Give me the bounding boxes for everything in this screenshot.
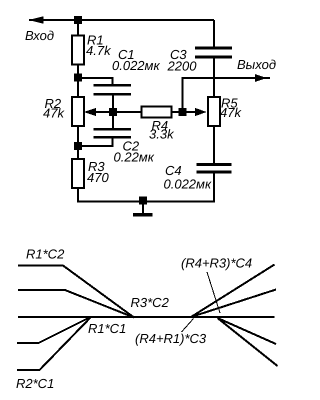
potentiometer R5 bbox=[208, 97, 220, 126]
node R1/R2/C1 junction bbox=[74, 74, 82, 82]
svg-text:2200: 2200 bbox=[167, 59, 198, 74]
svg-text:R1*C2: R1*C2 bbox=[26, 247, 65, 262]
graph line R2*C1 asymptote bbox=[17, 318, 91, 371]
potentiometer R2 bbox=[72, 97, 84, 126]
graph callout line to (R4+R1)*C3 bbox=[182, 319, 194, 333]
wire C2 top stub bbox=[112, 112, 114, 128]
output arrow bbox=[255, 74, 267, 82]
wire C1 top branch bbox=[78, 78, 113, 85]
node wiper/C1/C2 junction bbox=[109, 108, 117, 116]
wire C1 bottom stub bbox=[112, 96, 114, 113]
wire R2 wiper bbox=[96, 111, 113, 113]
graph line R3*C2 asymptote bbox=[18, 290, 134, 318]
wire R2 top stub bbox=[77, 82, 79, 98]
svg-text:0.22мк: 0.22мк bbox=[114, 150, 155, 165]
graph axis bbox=[18, 316, 275, 318]
graph line right down steep bbox=[218, 318, 278, 366]
svg-text:47k: 47k bbox=[220, 105, 242, 120]
svg-text:R3*C2: R3*C2 bbox=[131, 295, 170, 310]
wire C3 bottom to R5 top bbox=[213, 59, 215, 98]
capacitor C4 bbox=[197, 163, 232, 166]
input arrow bbox=[29, 16, 44, 24]
svg-text:3.3k: 3.3k bbox=[149, 127, 175, 142]
wire top right corner down to C3 bbox=[213, 20, 215, 47]
resistor R4 bbox=[142, 107, 172, 118]
graph line right down shallow bbox=[218, 318, 277, 344]
capacitor C2 bbox=[94, 128, 132, 131]
capacitor C1 bbox=[94, 84, 132, 87]
wire R1 top stub bbox=[77, 20, 79, 35]
R5 wiper arrow bbox=[195, 108, 207, 116]
node R4/R5 wiper junction bbox=[179, 108, 187, 116]
svg-text:0.022мк: 0.022мк bbox=[164, 177, 212, 192]
wire R5 wiper bbox=[183, 111, 198, 113]
svg-text:(R4+R1)*C3: (R4+R1)*C3 bbox=[135, 331, 207, 346]
graph callout line to (R4+R3)*C4 bbox=[207, 272, 220, 313]
svg-text:470: 470 bbox=[87, 170, 109, 185]
wire R3 bottom stub bbox=[77, 188, 79, 203]
svg-text:Вход: Вход bbox=[25, 28, 54, 43]
R2 wiper arrow bbox=[84, 108, 97, 116]
wire R3 top stub bbox=[77, 150, 79, 159]
wire top rail bbox=[29, 19, 214, 21]
graph line R1*C2 asymptote bbox=[18, 266, 134, 318]
svg-text:R1*C1: R1*C1 bbox=[88, 321, 126, 336]
wire C4 bottom to rail bbox=[213, 174, 215, 203]
svg-text:R2*C1: R2*C1 bbox=[16, 376, 54, 391]
svg-text:Выход: Выход bbox=[237, 57, 276, 72]
resistor R3 bbox=[72, 159, 84, 188]
wire R4 right lead bbox=[172, 111, 183, 113]
wire R2 bottom stub bbox=[77, 126, 79, 146]
svg-text:4.7k: 4.7k bbox=[86, 43, 112, 58]
wire bottom rail bbox=[78, 200, 215, 202]
graph line R1*C1 asymptote bbox=[17, 318, 90, 344]
ground bbox=[142, 201, 144, 214]
wire R5 bottom to C4 bbox=[213, 126, 215, 164]
wire R1 bottom stub bbox=[77, 65, 79, 79]
capacitor C3 bbox=[195, 47, 232, 50]
resistor R1 bbox=[72, 36, 84, 65]
node input/R1 junction bbox=[74, 16, 82, 24]
node R2/R3/C2 junction bbox=[74, 142, 82, 150]
graph line right up shallow bbox=[191, 290, 276, 318]
svg-text:47k: 47k bbox=[43, 106, 65, 121]
svg-text:0.022мк: 0.022мк bbox=[112, 58, 160, 73]
wire C2 bottom branch bbox=[78, 139, 113, 146]
wire R4 left lead bbox=[113, 111, 141, 113]
wire output branch riser bbox=[183, 78, 215, 112]
graph line right up steep bbox=[191, 265, 275, 318]
node ground junction bbox=[139, 197, 147, 205]
svg-text:(R4+R3)*C4: (R4+R3)*C4 bbox=[181, 256, 252, 271]
wire output line bbox=[214, 77, 270, 79]
